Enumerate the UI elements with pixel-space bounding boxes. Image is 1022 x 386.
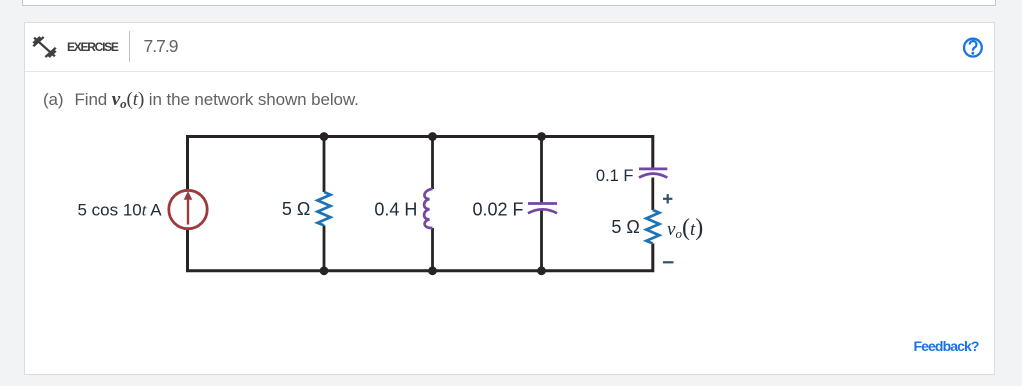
svg-text:0.02 F: 0.02 F [472,200,523,220]
svg-text:vo(t): vo(t) [667,215,703,241]
svg-text:5 Ω: 5 Ω [282,199,310,219]
svg-text:0.1 F: 0.1 F [596,167,634,185]
svg-text:5 cos 10t A: 5 cos 10t A [78,201,163,220]
svg-text:0.4 H: 0.4 H [374,200,417,220]
svg-text:5 Ω: 5 Ω [611,217,639,237]
